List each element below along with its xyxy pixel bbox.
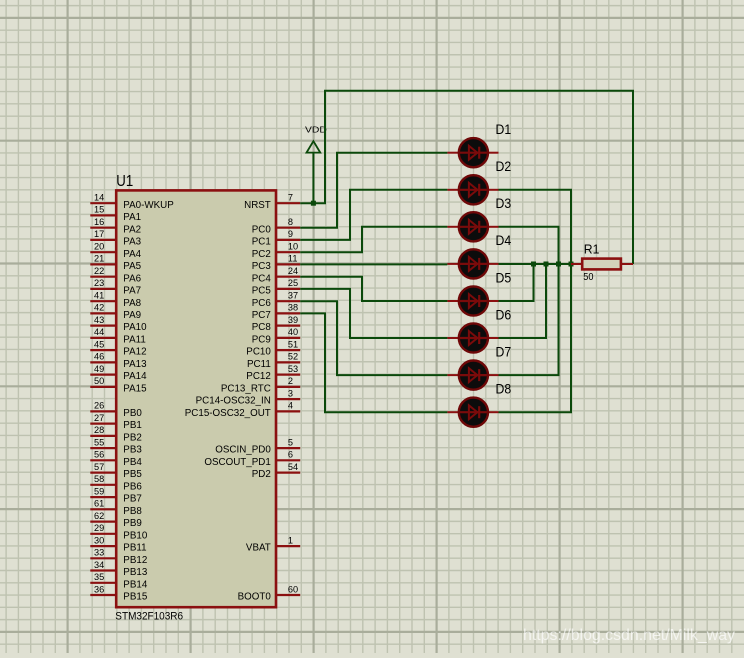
svg-text:PC10: PC10 <box>246 347 271 358</box>
LED D4 <box>447 249 498 278</box>
svg-text:49: 49 <box>94 364 104 374</box>
svg-text:NRST: NRST <box>244 200 271 211</box>
svg-text:PB8: PB8 <box>123 506 142 517</box>
svg-text:3: 3 <box>288 388 293 398</box>
U1 pin 34 (PB13) <box>90 560 148 578</box>
svg-text:35: 35 <box>94 572 104 582</box>
U1 pin 44 (PA11) <box>90 327 146 345</box>
svg-text:2: 2 <box>288 376 293 386</box>
svg-text:PC7: PC7 <box>252 310 271 321</box>
wire PC2 to D3 <box>300 227 447 252</box>
wire PC6 to D7 <box>300 301 447 375</box>
wire PC5 to D6 <box>300 289 447 338</box>
svg-text:PB9: PB9 <box>123 518 142 529</box>
svg-text:PB5: PB5 <box>123 469 142 480</box>
svg-text:20: 20 <box>94 242 104 252</box>
wire cathode bus to R1 <box>499 263 573 265</box>
svg-text:PA4: PA4 <box>123 249 141 260</box>
svg-text:VBAT: VBAT <box>246 543 271 554</box>
svg-text:59: 59 <box>94 486 104 496</box>
svg-text:D1: D1 <box>496 121 512 137</box>
svg-text:PC15-OSC32_OUT: PC15-OSC32_OUT <box>185 408 271 419</box>
U1 pin 30 (PB11) <box>90 535 146 553</box>
junction bus dot 4 <box>569 262 574 267</box>
U1 pin 43 (PA10) <box>90 315 147 333</box>
svg-text:PC13_RTC: PC13_RTC <box>221 384 271 395</box>
U1 pin 22 (PA6) <box>90 266 141 284</box>
svg-text:PB3: PB3 <box>123 445 142 456</box>
svg-text:PA9: PA9 <box>123 310 141 321</box>
svg-text:PB7: PB7 <box>123 494 142 505</box>
svg-text:17: 17 <box>94 229 104 239</box>
svg-text:26: 26 <box>94 401 104 411</box>
svg-text:52: 52 <box>288 352 298 362</box>
svg-text:24: 24 <box>288 266 298 276</box>
LED D1 <box>447 138 498 167</box>
U1 pin 3 (PC14-OSC32_IN) <box>196 388 301 406</box>
U1 pin 27 (PB1) <box>90 413 142 431</box>
junction VDD/NRST node <box>311 201 316 206</box>
U1 pin 9 (PC1) <box>252 229 300 247</box>
svg-text:PA14: PA14 <box>123 371 147 382</box>
U1 pin 52 (PC11) <box>247 352 300 370</box>
U1 pin 51 (PC10) <box>246 339 300 357</box>
svg-text:PC8: PC8 <box>252 322 272 333</box>
svg-text:D6: D6 <box>496 306 512 322</box>
wire NRST to VDD junction, up and across top to R1 right terminal <box>300 91 633 264</box>
U1 pin 25 (PC5) <box>252 278 300 296</box>
svg-text:36: 36 <box>94 584 104 594</box>
svg-text:PC4: PC4 <box>252 273 272 284</box>
svg-text:15: 15 <box>94 205 104 215</box>
resistor R1 <box>571 259 633 270</box>
svg-text:R1: R1 <box>584 242 600 257</box>
svg-text:41: 41 <box>94 291 104 301</box>
svg-text:30: 30 <box>94 535 104 545</box>
wire D6 cathode to bus <box>499 264 547 338</box>
U1 pin 36 (PB15) <box>90 584 148 602</box>
junction bus dot 3 <box>556 262 561 267</box>
svg-text:PC12: PC12 <box>246 371 271 382</box>
svg-text:25: 25 <box>288 278 298 288</box>
svg-text:PC14-OSC32_IN: PC14-OSC32_IN <box>196 396 271 407</box>
svg-text:56: 56 <box>94 450 104 460</box>
U1 pin 2 (PC13_RTC) <box>221 376 300 394</box>
svg-text:PC2: PC2 <box>252 249 271 260</box>
svg-text:PC5: PC5 <box>252 286 272 297</box>
svg-text:44: 44 <box>94 327 104 337</box>
LED D6 <box>447 323 498 352</box>
U1 pin 8 (PC0) <box>252 217 300 235</box>
svg-text:7: 7 <box>288 193 293 203</box>
svg-text:STM32F103R6: STM32F103R6 <box>115 611 183 623</box>
svg-text:43: 43 <box>94 315 104 325</box>
U1 pin 1 (VBAT) <box>246 535 300 553</box>
svg-text:PB6: PB6 <box>123 481 142 492</box>
svg-text:11: 11 <box>288 254 298 264</box>
svg-text:23: 23 <box>94 278 104 288</box>
svg-text:8: 8 <box>288 217 293 227</box>
svg-text:PA0-WKUP: PA0-WKUP <box>123 200 174 211</box>
svg-text:PA11: PA11 <box>123 335 146 346</box>
svg-text:PC3: PC3 <box>252 261 272 272</box>
U1 pin 20 (PA4) <box>90 242 141 260</box>
svg-text:50: 50 <box>583 272 593 283</box>
svg-text:PB14: PB14 <box>123 579 148 590</box>
svg-text:PA6: PA6 <box>123 273 141 284</box>
wire D5 cathode to bus <box>499 264 534 301</box>
junction bus dot 2 <box>544 262 549 267</box>
svg-text:60: 60 <box>288 584 298 594</box>
svg-text:57: 57 <box>94 462 104 472</box>
svg-text:PD2: PD2 <box>252 469 271 480</box>
U1 pin 17 (PA3) <box>90 229 141 247</box>
U1 pin 33 (PB12) <box>90 548 147 566</box>
U1 pin 4 (PC15-OSC32_OUT) <box>185 401 300 419</box>
svg-text:PB4: PB4 <box>123 457 142 468</box>
svg-text:OSCIN_PD0: OSCIN_PD0 <box>215 445 271 456</box>
svg-text:PB1: PB1 <box>123 420 142 431</box>
LED D2 <box>447 175 498 204</box>
U1 pin 53 (PC12) <box>246 364 300 382</box>
svg-text:37: 37 <box>288 291 298 301</box>
svg-text:D5: D5 <box>496 269 512 285</box>
svg-text:PB11: PB11 <box>123 543 146 554</box>
svg-text:U1: U1 <box>116 173 133 190</box>
svg-text:PC1: PC1 <box>252 237 271 248</box>
svg-text:PB2: PB2 <box>123 433 142 444</box>
chip U1 STM32F103R6 body <box>116 190 276 607</box>
wire PC0 to D1 <box>300 153 447 228</box>
svg-text:34: 34 <box>94 560 104 570</box>
U1 pin 35 (PB14) <box>90 572 148 590</box>
svg-text:PB0: PB0 <box>123 408 142 419</box>
svg-text:5: 5 <box>288 437 293 447</box>
U1 pin 37 (PC6) <box>252 291 300 309</box>
U1 pin 5 (OSCIN_PD0) <box>215 437 300 455</box>
svg-text:39: 39 <box>288 315 298 325</box>
LED D3 <box>447 212 498 241</box>
svg-text:51: 51 <box>288 339 298 349</box>
wire D8 cathode to bus <box>499 264 572 412</box>
svg-text:PB10: PB10 <box>123 530 148 541</box>
power symbol VDD <box>307 141 321 203</box>
svg-text:28: 28 <box>94 425 104 435</box>
U1 pin 15 (PA1) <box>90 205 141 223</box>
wire PC3 to D4 <box>300 263 447 265</box>
svg-text:50: 50 <box>94 376 104 386</box>
svg-text:27: 27 <box>94 413 104 423</box>
svg-text:61: 61 <box>94 499 104 509</box>
svg-text:PC11: PC11 <box>247 359 271 370</box>
svg-text:9: 9 <box>288 229 293 239</box>
svg-text:D8: D8 <box>496 381 512 397</box>
U1 pin 38 (PC7) <box>252 303 300 321</box>
svg-text:40: 40 <box>288 327 298 337</box>
U1 pin 40 (PC9) <box>252 327 300 345</box>
svg-text:PA8: PA8 <box>123 298 141 309</box>
svg-text:38: 38 <box>288 303 298 313</box>
U1 pin 26 (PB0) <box>90 401 142 419</box>
U1 pin 41 (PA8) <box>90 291 141 309</box>
svg-text:VDD: VDD <box>305 125 327 135</box>
LED D5 <box>447 286 498 315</box>
U1 pin 39 (PC8) <box>252 315 300 333</box>
svg-text:D7: D7 <box>496 343 512 359</box>
junction bus dot 1 <box>531 262 536 267</box>
svg-text:1: 1 <box>288 535 293 545</box>
wire PC7 to D8 <box>300 313 447 412</box>
svg-text:D3: D3 <box>496 195 512 211</box>
U1 pin 60 (BOOT0) <box>238 584 301 602</box>
svg-text:62: 62 <box>94 511 104 521</box>
svg-text:46: 46 <box>94 352 104 362</box>
svg-text:53: 53 <box>288 364 298 374</box>
U1 pin 11 (PC3) <box>252 254 300 272</box>
svg-text:PC0: PC0 <box>252 224 272 235</box>
U1 pin 21 (PA5) <box>90 254 141 272</box>
U1 pin 16 (PA2) <box>90 217 141 235</box>
U1 pin 24 (PC4) <box>252 266 300 284</box>
svg-text:54: 54 <box>288 462 298 472</box>
LED D7 <box>447 361 498 390</box>
LED D8 <box>447 398 498 427</box>
wire D3 cathode to bus <box>499 227 559 264</box>
wire PC4 to D5 <box>300 277 447 301</box>
svg-text:21: 21 <box>94 254 104 264</box>
U1 pin 54 (PD2) <box>252 462 300 480</box>
U1 pin 28 (PB2) <box>90 425 142 443</box>
wire PC1 to D2 <box>300 190 447 240</box>
U1 pin 23 (PA7) <box>90 278 141 296</box>
svg-text:PA10: PA10 <box>123 322 147 333</box>
svg-text:PB13: PB13 <box>123 567 148 578</box>
U1 pin 42 (PA9) <box>90 303 141 321</box>
wire D2 cathode to bus <box>499 190 572 264</box>
U1 pin 14 (PA0-WKUP) <box>90 193 174 211</box>
svg-text:PA2: PA2 <box>123 224 141 235</box>
svg-text:PA5: PA5 <box>123 261 141 272</box>
svg-text:PC6: PC6 <box>252 298 272 309</box>
svg-text:PA12: PA12 <box>123 347 146 358</box>
svg-text:PA3: PA3 <box>123 237 141 248</box>
U1 pin 50 (PA15) <box>90 376 147 394</box>
U1 pin 55 (PB3) <box>90 437 142 455</box>
svg-text:10: 10 <box>288 242 298 252</box>
svg-text:55: 55 <box>94 437 104 447</box>
U1 pin 56 (PB4) <box>90 450 142 468</box>
svg-text:PA13: PA13 <box>123 359 147 370</box>
U1 pin 61 (PB8) <box>90 499 142 517</box>
svg-text:https://blog.csdn.net/Milk_way: https://blog.csdn.net/Milk_way <box>523 627 735 644</box>
U1 pin 46 (PA13) <box>90 352 147 370</box>
U1 pin 7 (NRST) <box>244 193 300 211</box>
svg-text:58: 58 <box>94 474 104 484</box>
U1 pin 58 (PB6) <box>90 474 142 492</box>
svg-text:PA1: PA1 <box>123 212 141 223</box>
svg-text:42: 42 <box>94 303 104 313</box>
svg-text:BOOT0: BOOT0 <box>238 592 272 603</box>
U1 pin 57 (PB5) <box>90 462 142 480</box>
svg-text:PB12: PB12 <box>123 555 147 566</box>
U1 pin 10 (PC2) <box>252 242 300 260</box>
U1 pin 45 (PA12) <box>90 339 146 357</box>
svg-text:PC9: PC9 <box>252 335 271 346</box>
svg-text:45: 45 <box>94 339 104 349</box>
svg-text:16: 16 <box>94 217 104 227</box>
svg-text:PB15: PB15 <box>123 592 148 603</box>
svg-text:33: 33 <box>94 548 104 558</box>
svg-text:OSCOUT_PD1: OSCOUT_PD1 <box>204 457 270 468</box>
U1 pin 29 (PB10) <box>90 523 148 541</box>
U1 pin 59 (PB7) <box>90 486 142 504</box>
svg-text:PA15: PA15 <box>123 384 147 395</box>
svg-text:4: 4 <box>288 401 293 411</box>
svg-text:6: 6 <box>288 450 293 460</box>
svg-text:D4: D4 <box>496 232 512 248</box>
svg-text:D2: D2 <box>496 158 512 174</box>
svg-text:22: 22 <box>94 266 104 276</box>
U1 pin 62 (PB9) <box>90 511 142 529</box>
svg-text:29: 29 <box>94 523 104 533</box>
wire D7 cathode to bus <box>499 264 559 375</box>
svg-text:PA7: PA7 <box>123 286 141 297</box>
svg-text:14: 14 <box>94 193 104 203</box>
U1 pin 49 (PA14) <box>90 364 147 382</box>
U1 pin 6 (OSCOUT_PD1) <box>204 450 300 468</box>
